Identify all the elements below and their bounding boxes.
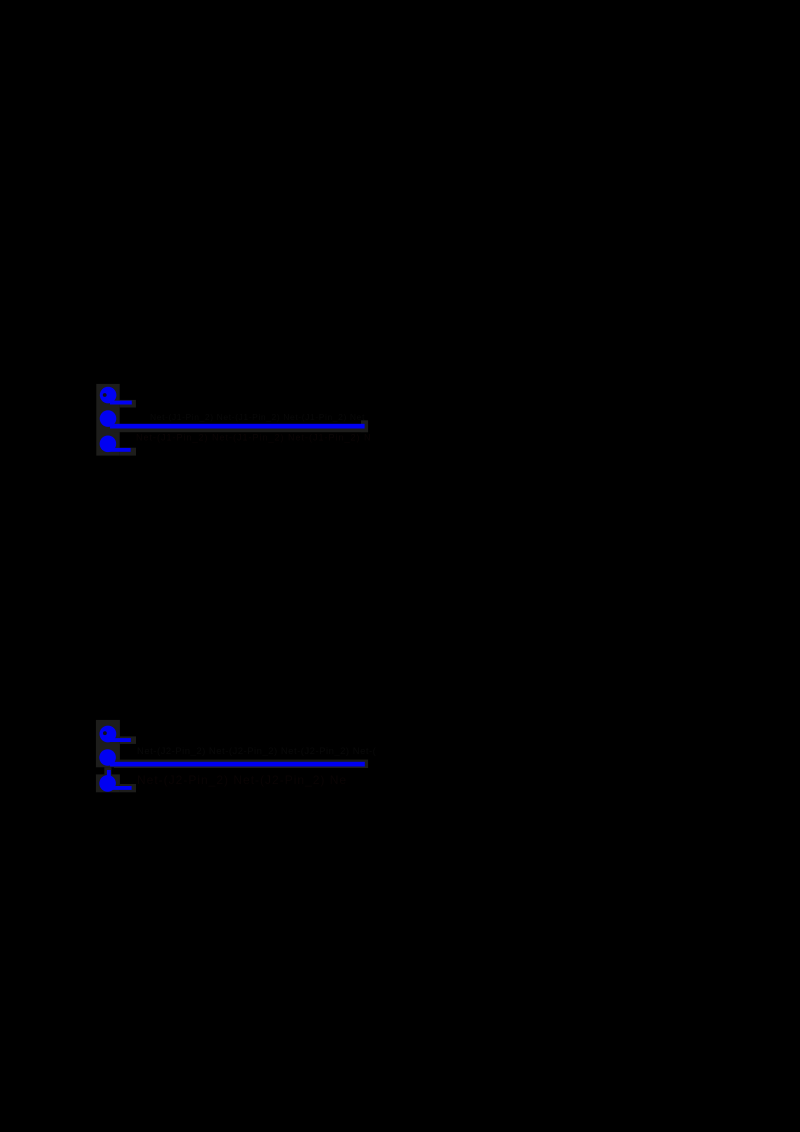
J2 pin 3 line	[110, 786, 132, 790]
J2 pin 1 highlight	[120, 736, 136, 744]
wire Net-(J2-Pin_2) highlight	[114, 760, 368, 768]
connector J2	[96, 720, 377, 792]
wire Net-(J2-Pin_2)	[110, 762, 365, 767]
J1 pin 3 line	[110, 448, 131, 452]
vertical wire stub	[107, 770, 111, 778]
J1 pin 1 circle	[100, 387, 117, 404]
J2 pin 3 circle	[99, 775, 116, 792]
svg-text:Net-(J1-Pin_2) Net-(J1-Pin_2): Net-(J1-Pin_2) Net-(J1-Pin_2) Net-(J1-Pi…	[150, 412, 365, 422]
svg-text:Net-(J1-Pin_2) Net-(J1-Pin_2: Net-(J1-Pin_2) Net-(J1-Pin_2) Net-(J1-Pi…	[136, 433, 372, 443]
vertical wire stub highlight	[104, 767, 111, 774]
J2 selection highlight box	[96, 720, 120, 767]
svg-text:Net-(J2-Pin_2) Net-(J2-Pin_2): Net-(J2-Pin_2) Net-(J2-Pin_2) Net-(J2-Pi…	[137, 746, 377, 757]
J2 pin3 unit highlight box	[96, 774, 120, 792]
J2 pin 1 line	[110, 738, 131, 742]
J1 pin 1 line	[110, 401, 132, 405]
J2 pin 1 circle	[100, 726, 117, 743]
svg-text:Net-(J2-Pin_2) Net-(J2-Pin_2): Net-(J2-Pin_2) Net-(J2-Pin_2) Ne	[137, 773, 347, 787]
J1 pin 3 circle	[100, 436, 117, 453]
J1 selection highlight box	[96, 384, 119, 456]
J2 pin 2 circle	[99, 749, 116, 766]
J1 pin 3 highlight	[120, 448, 136, 456]
wire Net-(J1-Pin_2)	[110, 424, 365, 429]
J1 pin 1 highlight	[120, 400, 136, 408]
wire Net-(J1-Pin_2) highlight	[114, 424, 368, 432]
connector J1	[96, 384, 371, 456]
J2 pin 3 highlight	[120, 784, 136, 792]
J1 pin 2 circle	[100, 410, 117, 427]
